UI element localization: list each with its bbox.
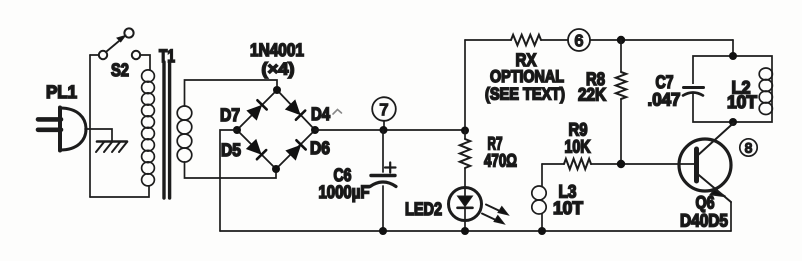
svg-text:7: 7 (380, 102, 389, 119)
svg-text:6: 6 (575, 33, 584, 50)
wire plug to S2 (left vertical) (89, 55, 91, 197)
junction R7 top (461, 127, 469, 135)
inductor L3 (532, 164, 546, 231)
junction right vertex (311, 126, 319, 134)
transformer T1 secondary coil (177, 106, 192, 162)
wire secondary top to bridge top (185, 80, 278, 106)
svg-text:LED2: LED2 (405, 199, 442, 219)
wire primary bottom (90, 186, 149, 197)
junction R8 top (617, 36, 625, 44)
capacitor C7 (683, 84, 704, 96)
svg-text:D5: D5 (221, 140, 241, 160)
svg-text:470Ω: 470Ω (484, 151, 517, 171)
positive rail from bridge right vertex (315, 129, 465, 131)
junction node7 (380, 126, 388, 134)
transistor Q6 (679, 123, 734, 231)
wire bridge left vertex down to bottom rail (220, 130, 237, 231)
junction C6 bottom (379, 227, 387, 235)
switch S2 (99, 28, 140, 59)
inductor L2 (759, 68, 772, 115)
resistor R9 (564, 159, 591, 169)
plug PL1 (38, 108, 86, 151)
resistor R8 (616, 40, 626, 164)
svg-text:22K: 22K (578, 85, 606, 105)
svg-text:PL1: PL1 (46, 82, 77, 102)
junction top vertex (273, 86, 281, 94)
svg-text:10T: 10T (727, 92, 757, 112)
diode D7 (247, 100, 266, 119)
junction tank top (729, 52, 737, 60)
svg-text:D40D5: D40D5 (680, 211, 728, 231)
svg-text:Q6: Q6 (696, 193, 715, 213)
junction R8 bottom base wire (617, 160, 625, 168)
svg-text:S2: S2 (111, 60, 129, 80)
transformer T1 core (164, 62, 170, 198)
caret mark (333, 110, 342, 115)
tank circuit frame C7 L2 (693, 56, 772, 122)
base wire R9 to Q6 (542, 163, 564, 165)
resistor R7 (460, 130, 470, 188)
resistor RX (511, 35, 541, 45)
LED2 (449, 188, 509, 232)
svg-text:.047: .047 (648, 90, 681, 110)
wire secondary bottom to bridge bottom (185, 162, 277, 178)
bridge rectifier frame (237, 90, 315, 169)
node 6 (568, 29, 590, 51)
svg-text:10K: 10K (565, 137, 591, 157)
ground (96, 142, 127, 153)
svg-text:10T: 10T (553, 198, 583, 218)
capacitor C6 (370, 130, 396, 231)
node 7 (372, 97, 396, 127)
svg-text:1000µF: 1000µF (319, 182, 370, 202)
svg-text:T1: T1 (159, 46, 175, 66)
diode D4 (286, 100, 305, 119)
svg-text:D4: D4 (311, 104, 330, 124)
svg-text:8: 8 (745, 141, 753, 156)
node 8 (740, 139, 757, 156)
svg-text:OPTIONAL: OPTIONAL (490, 67, 564, 86)
transformer T1 primary coil (142, 70, 155, 186)
wire top rail right corner down to tank (732, 40, 734, 56)
svg-text:(SEE TEXT): (SEE TEXT) (485, 85, 565, 104)
junction left vertex (233, 126, 241, 134)
svg-text:(×4): (×4) (262, 60, 295, 79)
junction tank bottom (729, 118, 737, 126)
vertical top rail to positive rail (464, 40, 466, 130)
junction bottom vertex (272, 165, 280, 173)
wire S2 corner (90, 54, 99, 56)
top rail (465, 39, 511, 41)
ground wire from plug (85, 129, 112, 141)
diode D6 (286, 140, 305, 159)
bottom rail (220, 230, 731, 232)
wire S2 to T1 primary top (140, 55, 150, 70)
svg-text:1N4001: 1N4001 (250, 40, 304, 60)
diode D5 (247, 140, 266, 159)
svg-text:D7: D7 (220, 105, 240, 125)
junction LED bottom (461, 227, 469, 235)
svg-text:D6: D6 (310, 138, 330, 158)
junction L3 bottom (538, 227, 546, 235)
